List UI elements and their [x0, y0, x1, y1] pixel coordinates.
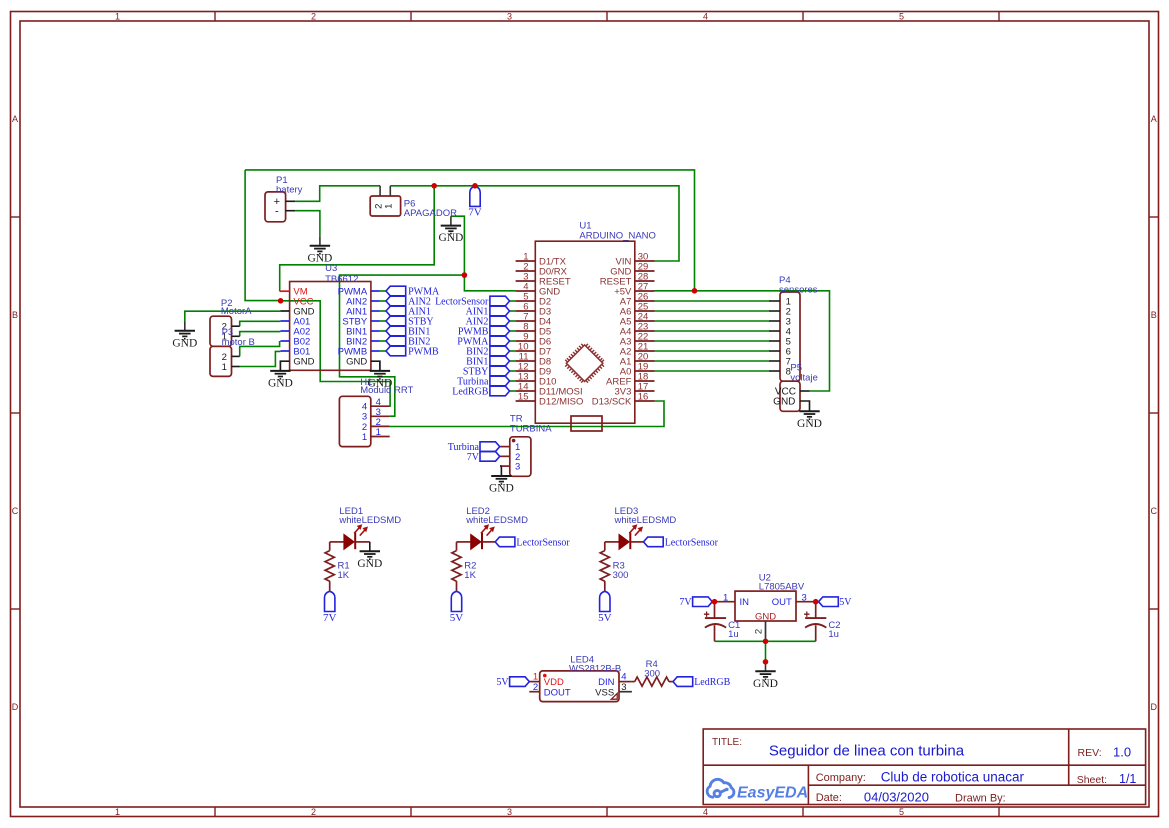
svg-text:1K: 1K [338, 570, 350, 581]
wire VM branch from 7V rail [280, 186, 435, 291]
svg-text:TITLE:: TITLE: [712, 737, 742, 748]
LED3 R3 [605, 541, 619, 543]
junction VM branch [431, 183, 437, 189]
U1 pin 19 A0 [635, 370, 655, 372]
net flag PWMA on U1 pin 9 [509, 340, 515, 342]
wire P3 pin2 to B02 [240, 342, 281, 357]
svg-text:15: 15 [518, 392, 529, 403]
LED2 R2 [457, 541, 471, 543]
svg-text:1: 1 [376, 427, 381, 438]
U3 pin STBY right [371, 320, 380, 322]
LED1 R1 [330, 541, 344, 543]
U3 pin A01 left [280, 320, 289, 322]
svg-text:3: 3 [507, 807, 512, 817]
svg-text:16: 16 [638, 392, 649, 403]
svg-text:GND: GND [489, 483, 514, 495]
ground MotorA [184, 322, 186, 331]
svg-text:GND: GND [755, 611, 776, 622]
net flag 5V at LED4 VDD [510, 677, 530, 687]
svg-text:1.0: 1.0 [1113, 744, 1131, 759]
net flag LectorSensor on U1 pin 5 [509, 300, 515, 302]
LED1 cathode to ground [355, 541, 370, 543]
svg-text:OUT: OUT [772, 597, 792, 608]
net flag AIN2 on U1 pin 7 [509, 320, 515, 322]
svg-text:ARDUINO_NANO: ARDUINO_NANO [579, 231, 656, 242]
svg-text:1: 1 [533, 671, 538, 682]
wire battery- to ground [295, 211, 320, 237]
U1 pin 16 D13/SCK [635, 400, 655, 402]
ground near P6 [450, 216, 452, 225]
H1 pin 1 [371, 436, 390, 438]
svg-text:1u: 1u [728, 629, 739, 640]
svg-text:1: 1 [723, 592, 728, 603]
svg-text:GND: GND [268, 378, 293, 390]
net flag AIN1 on U1 pin 6 [509, 310, 515, 312]
resistor R3 300 [604, 542, 606, 551]
U3 pin B01 left [280, 350, 289, 352]
U3 pin AIN1 right [371, 310, 380, 312]
svg-text:1K: 1K [464, 570, 476, 581]
wire D13/SCK pin16 to Modulo RRT pin 2 [390, 401, 664, 427]
ground battery [319, 236, 321, 245]
svg-text:whiteLEDSMD: whiteLEDSMD [614, 515, 677, 526]
svg-text:5V: 5V [839, 597, 852, 608]
svg-text:2: 2 [533, 682, 538, 693]
U3 pin GND left [280, 310, 289, 312]
TR pin 3 to ground [500, 466, 501, 476]
svg-text:Seguidor de linea con turbina: Seguidor de linea con turbina [769, 743, 965, 760]
TR pin1 marker dot [512, 439, 516, 443]
svg-text:A: A [1151, 114, 1157, 124]
net flag LedRGB on U1 pin 14 [509, 390, 515, 392]
svg-text:5V: 5V [598, 612, 612, 624]
U1 chip glyph (QFP diamond) [562, 340, 608, 386]
U3 pin BIN1 right [371, 330, 380, 332]
motor driver U3 TB6612 [290, 282, 371, 371]
capacitor C2 1u [815, 602, 817, 618]
U1 pin 3 RESET [516, 280, 536, 282]
wire +5V top rail [245, 170, 694, 291]
TR pin 3 [500, 465, 510, 467]
battery P1 [265, 192, 286, 222]
svg-text:1: 1 [222, 362, 227, 373]
U3 pin B02 left [280, 340, 289, 342]
svg-text:3: 3 [515, 462, 520, 473]
wire GND symbol near P6 [451, 216, 465, 275]
LED4 WS2812B-B [540, 671, 619, 702]
wire TB6612 GND pin to MotorA ground [185, 311, 281, 321]
H1 pin 4 [371, 405, 390, 407]
svg-text:batery: batery [276, 185, 303, 196]
svg-text:GND: GND [773, 397, 795, 408]
wires Arduino A7-A0 to P4 pins 1-8 [655, 301, 770, 371]
U1 crystal rectangle [571, 416, 602, 431]
U2 pin 1 [712, 601, 735, 603]
ground P5 [799, 411, 819, 419]
svg-text:7V: 7V [468, 207, 482, 219]
U3 pin PWMB right [371, 350, 380, 352]
wire P6 pin1 7V rail to VIN [390, 186, 679, 261]
U1 pin 18 AREF [635, 380, 655, 382]
U1 pin 23 A4 [635, 330, 655, 332]
LED4 pin 3 [619, 691, 632, 693]
U3 pin PWMA right [371, 290, 380, 292]
TR pin 1 [500, 446, 510, 448]
U1 pin 10 D7 [516, 350, 536, 352]
U1 pin 13 D10 [516, 380, 536, 382]
U1 pin 24 A5 [635, 320, 655, 322]
U3 pin A02 left [280, 330, 289, 332]
U1 pin 7 D4 [516, 320, 536, 322]
wire junction to Arduino GND pin 4 [464, 275, 515, 291]
U1 pin 28 RESET [635, 280, 655, 282]
net flag BIN2 on U1 pin 10 [509, 350, 515, 352]
U1 pin 8 D5 [516, 330, 536, 332]
U2 pin 3 [796, 601, 819, 603]
svg-text:4: 4 [621, 671, 626, 682]
svg-text:C: C [12, 506, 19, 516]
junction U2 ground rail [763, 639, 769, 645]
resistor R4 300 [632, 681, 635, 683]
net flag PWMB on U1 pin 8 [509, 330, 515, 332]
junction GND net [462, 272, 468, 278]
U1 pin 15 D12/MISO [516, 400, 536, 402]
U3 pin AIN2 right [371, 300, 380, 302]
LED4 pin 4 [619, 681, 632, 683]
net flag LedRGB at R4 [673, 677, 693, 687]
U1 pin 5 D2 [516, 300, 536, 302]
svg-text:APAGADOR: APAGADOR [404, 208, 457, 219]
svg-text:1: 1 [115, 807, 120, 817]
svg-text:GND: GND [172, 337, 197, 349]
wire P2 pin1 to A02 [240, 332, 281, 337]
LED3 cathode to LectorSensor flag [630, 541, 643, 543]
TR pin 2 [500, 455, 510, 457]
U1 pin 30 VIN [635, 260, 655, 262]
svg-text:300: 300 [644, 668, 660, 679]
U2 pin 2 [765, 621, 767, 641]
svg-text:3: 3 [507, 12, 512, 22]
ground TB6612 left [270, 371, 290, 379]
U1 pin 14 D11/MOSI [516, 390, 536, 392]
U1 pin 6 D3 [516, 310, 536, 312]
wire P2 pin2 to A01 [240, 321, 281, 326]
net flag Turbina on TR pin 1 [480, 442, 500, 452]
svg-text:motor B: motor B [222, 337, 255, 348]
LED4 pin 2 [529, 691, 539, 693]
wire GND net to Modulo RRT pin 3 [340, 275, 465, 416]
svg-text:LectorSensor: LectorSensor [516, 537, 570, 548]
junction 7V flag [472, 183, 478, 189]
svg-text:EasyEDA: EasyEDA [737, 785, 808, 802]
svg-text:LedRGB: LedRGB [452, 387, 488, 398]
U1 pin 11 D8 [516, 360, 536, 362]
LED4 pin 1 [529, 681, 539, 683]
U1 pin 25 A6 [635, 310, 655, 312]
U1 pin 2 D0/RX [516, 270, 536, 272]
junction U2 output [813, 599, 819, 605]
svg-text:B: B [1151, 310, 1157, 320]
svg-text:Modulo RRT: Modulo RRT [360, 385, 413, 396]
U3 pin VM left [280, 290, 290, 292]
ground U2 [765, 662, 767, 671]
U1 pin 12 D9 [516, 370, 536, 372]
U3 GND pin left to ground [280, 361, 289, 371]
wire VCC node to Modulo RRT pin 4 [281, 301, 391, 406]
svg-text:GND: GND [357, 558, 382, 570]
svg-text:REV:: REV: [1078, 747, 1102, 759]
svg-text:1: 1 [115, 12, 120, 22]
svg-text:3: 3 [802, 592, 807, 603]
svg-text:U3: U3 [325, 263, 337, 274]
switch P6 APAGADOR [370, 196, 400, 216]
svg-text:PWMB: PWMB [408, 347, 439, 358]
junction U2 input [712, 599, 718, 605]
svg-text:Sheet:: Sheet: [1077, 774, 1107, 786]
net flag STBY on U1 pin 12 [509, 370, 515, 372]
connector P5 voltaje [780, 381, 800, 411]
P5 GND pin to ground [800, 401, 810, 411]
regulator U2 L7805ABV [735, 591, 796, 621]
svg-text:A: A [12, 114, 18, 124]
U1 pin 4 GND [516, 290, 536, 292]
svg-text:Drawn By:: Drawn By: [955, 793, 1006, 805]
svg-text:whiteLEDSMD: whiteLEDSMD [465, 515, 528, 526]
svg-text:-: - [275, 206, 279, 218]
svg-text:D12/MISO: D12/MISO [539, 396, 583, 407]
svg-text:TURBINA: TURBINA [510, 424, 552, 435]
U3 pin BIN2 right [371, 340, 380, 342]
wire battery+ to P6 pin2 [295, 186, 380, 202]
svg-text:1: 1 [384, 204, 395, 209]
U1 pin 20 A1 [635, 360, 655, 362]
svg-text:Club de robotica unacar: Club de robotica unacar [881, 769, 1025, 784]
svg-text:04/03/2020: 04/03/2020 [864, 789, 929, 804]
svg-text:5V: 5V [496, 677, 509, 688]
title block [703, 729, 1145, 805]
net flag 5V at U2 output [819, 597, 839, 607]
net flag 5V under R2 [451, 591, 461, 611]
net flag Turbina on U1 pin 13 [509, 380, 515, 382]
EasyEDA logo [707, 779, 734, 797]
svg-text:5: 5 [899, 12, 904, 22]
H1 pin 2 [371, 425, 390, 427]
connector P3 motor B [210, 346, 232, 376]
svg-text:GND: GND [293, 356, 314, 367]
svg-text:LectorSensor: LectorSensor [665, 537, 719, 548]
resistor R2 1K [456, 542, 458, 551]
svg-text:Date:: Date: [816, 792, 842, 804]
svg-text:7V: 7V [679, 597, 692, 608]
net flag 7V at U2 input [693, 597, 713, 607]
svg-text:GND: GND [753, 678, 778, 690]
resistor R1 1K [329, 542, 331, 551]
net flag 7V under R1 [325, 591, 335, 611]
net flag 5V under R3 [600, 591, 610, 611]
wire +5V rail down to TB6612 VCC [245, 170, 281, 301]
svg-text:VSS: VSS [595, 687, 614, 698]
connector TR TURBINA [510, 437, 531, 477]
svg-text:5: 5 [899, 807, 904, 817]
wire U2 rail to ground [765, 641, 767, 662]
svg-text:B: B [12, 310, 18, 320]
svg-text:300: 300 [613, 570, 629, 581]
H1 pin 3 [371, 415, 390, 417]
svg-text:LedRGB: LedRGB [694, 677, 730, 688]
svg-text:D: D [12, 702, 19, 712]
svg-text:7V: 7V [323, 612, 337, 624]
svg-text:1/1: 1/1 [1119, 772, 1136, 786]
svg-text:MotorA: MotorA [221, 306, 252, 317]
net flag 7V top rail [470, 186, 480, 206]
connector H1 Modulo RRT [339, 396, 370, 446]
svg-text:D: D [1151, 702, 1158, 712]
svg-text:3: 3 [621, 682, 626, 693]
wire +5V pin27 to P4/P5 VCC [655, 291, 830, 391]
svg-text:whiteLEDSMD: whiteLEDSMD [338, 515, 401, 526]
svg-text:voltaje: voltaje [790, 372, 817, 383]
junction U2 ground stem [763, 659, 769, 665]
svg-text:2: 2 [754, 629, 765, 634]
svg-text:1u: 1u [828, 629, 839, 640]
U1 pin 27 +5V [635, 290, 655, 292]
svg-text:2: 2 [311, 12, 316, 22]
svg-text:L7805ABV: L7805ABV [759, 582, 805, 593]
svg-text:WS2812B-B: WS2812B-B [569, 664, 621, 675]
U1 pin 26 A7 [635, 300, 655, 302]
svg-text:sensores: sensores [779, 284, 818, 295]
svg-text:C: C [1151, 506, 1158, 516]
U1 pin 21 A2 [635, 350, 655, 352]
svg-text:4: 4 [703, 12, 708, 22]
microcontroller U1 ARDUINO_NANO [535, 241, 635, 423]
net flag BIN1 on U1 pin 11 [509, 360, 515, 362]
U1 pin 29 GND [635, 270, 655, 272]
svg-text:2: 2 [311, 807, 316, 817]
U1 pin 17 3V3 [635, 390, 655, 392]
svg-text:5V: 5V [450, 612, 464, 624]
svg-text:D13/SCK: D13/SCK [592, 396, 632, 407]
svg-text:TB6612: TB6612 [325, 274, 358, 285]
svg-text:1: 1 [362, 432, 367, 443]
junction +5V node [692, 288, 698, 294]
junction VCC node [278, 298, 284, 304]
U1 pin 1 D1/TX [516, 260, 536, 262]
LED2 cathode to LectorSensor flag [482, 541, 495, 543]
svg-text:GND: GND [797, 418, 822, 430]
wire P3 pin1 to B01 [240, 351, 281, 366]
svg-text:Company:: Company: [816, 772, 866, 784]
U1 pin 22 A3 [635, 340, 655, 342]
svg-text:GND: GND [346, 356, 367, 367]
svg-text:7V: 7V [467, 452, 480, 463]
connector P2 MotorA [210, 316, 232, 346]
wire U2 ground rail [715, 640, 816, 642]
ground TB6612 right [370, 371, 390, 379]
svg-text:4: 4 [703, 807, 708, 817]
svg-text:DOUT: DOUT [544, 687, 571, 698]
U1 pin 9 D6 [516, 340, 536, 342]
net flag 7V on TR pin 2 [480, 452, 500, 462]
connector P4 sensores [780, 292, 800, 381]
svg-text:GND: GND [438, 232, 463, 244]
svg-text:IN: IN [740, 597, 750, 608]
capacitor C1 1u [714, 602, 716, 618]
